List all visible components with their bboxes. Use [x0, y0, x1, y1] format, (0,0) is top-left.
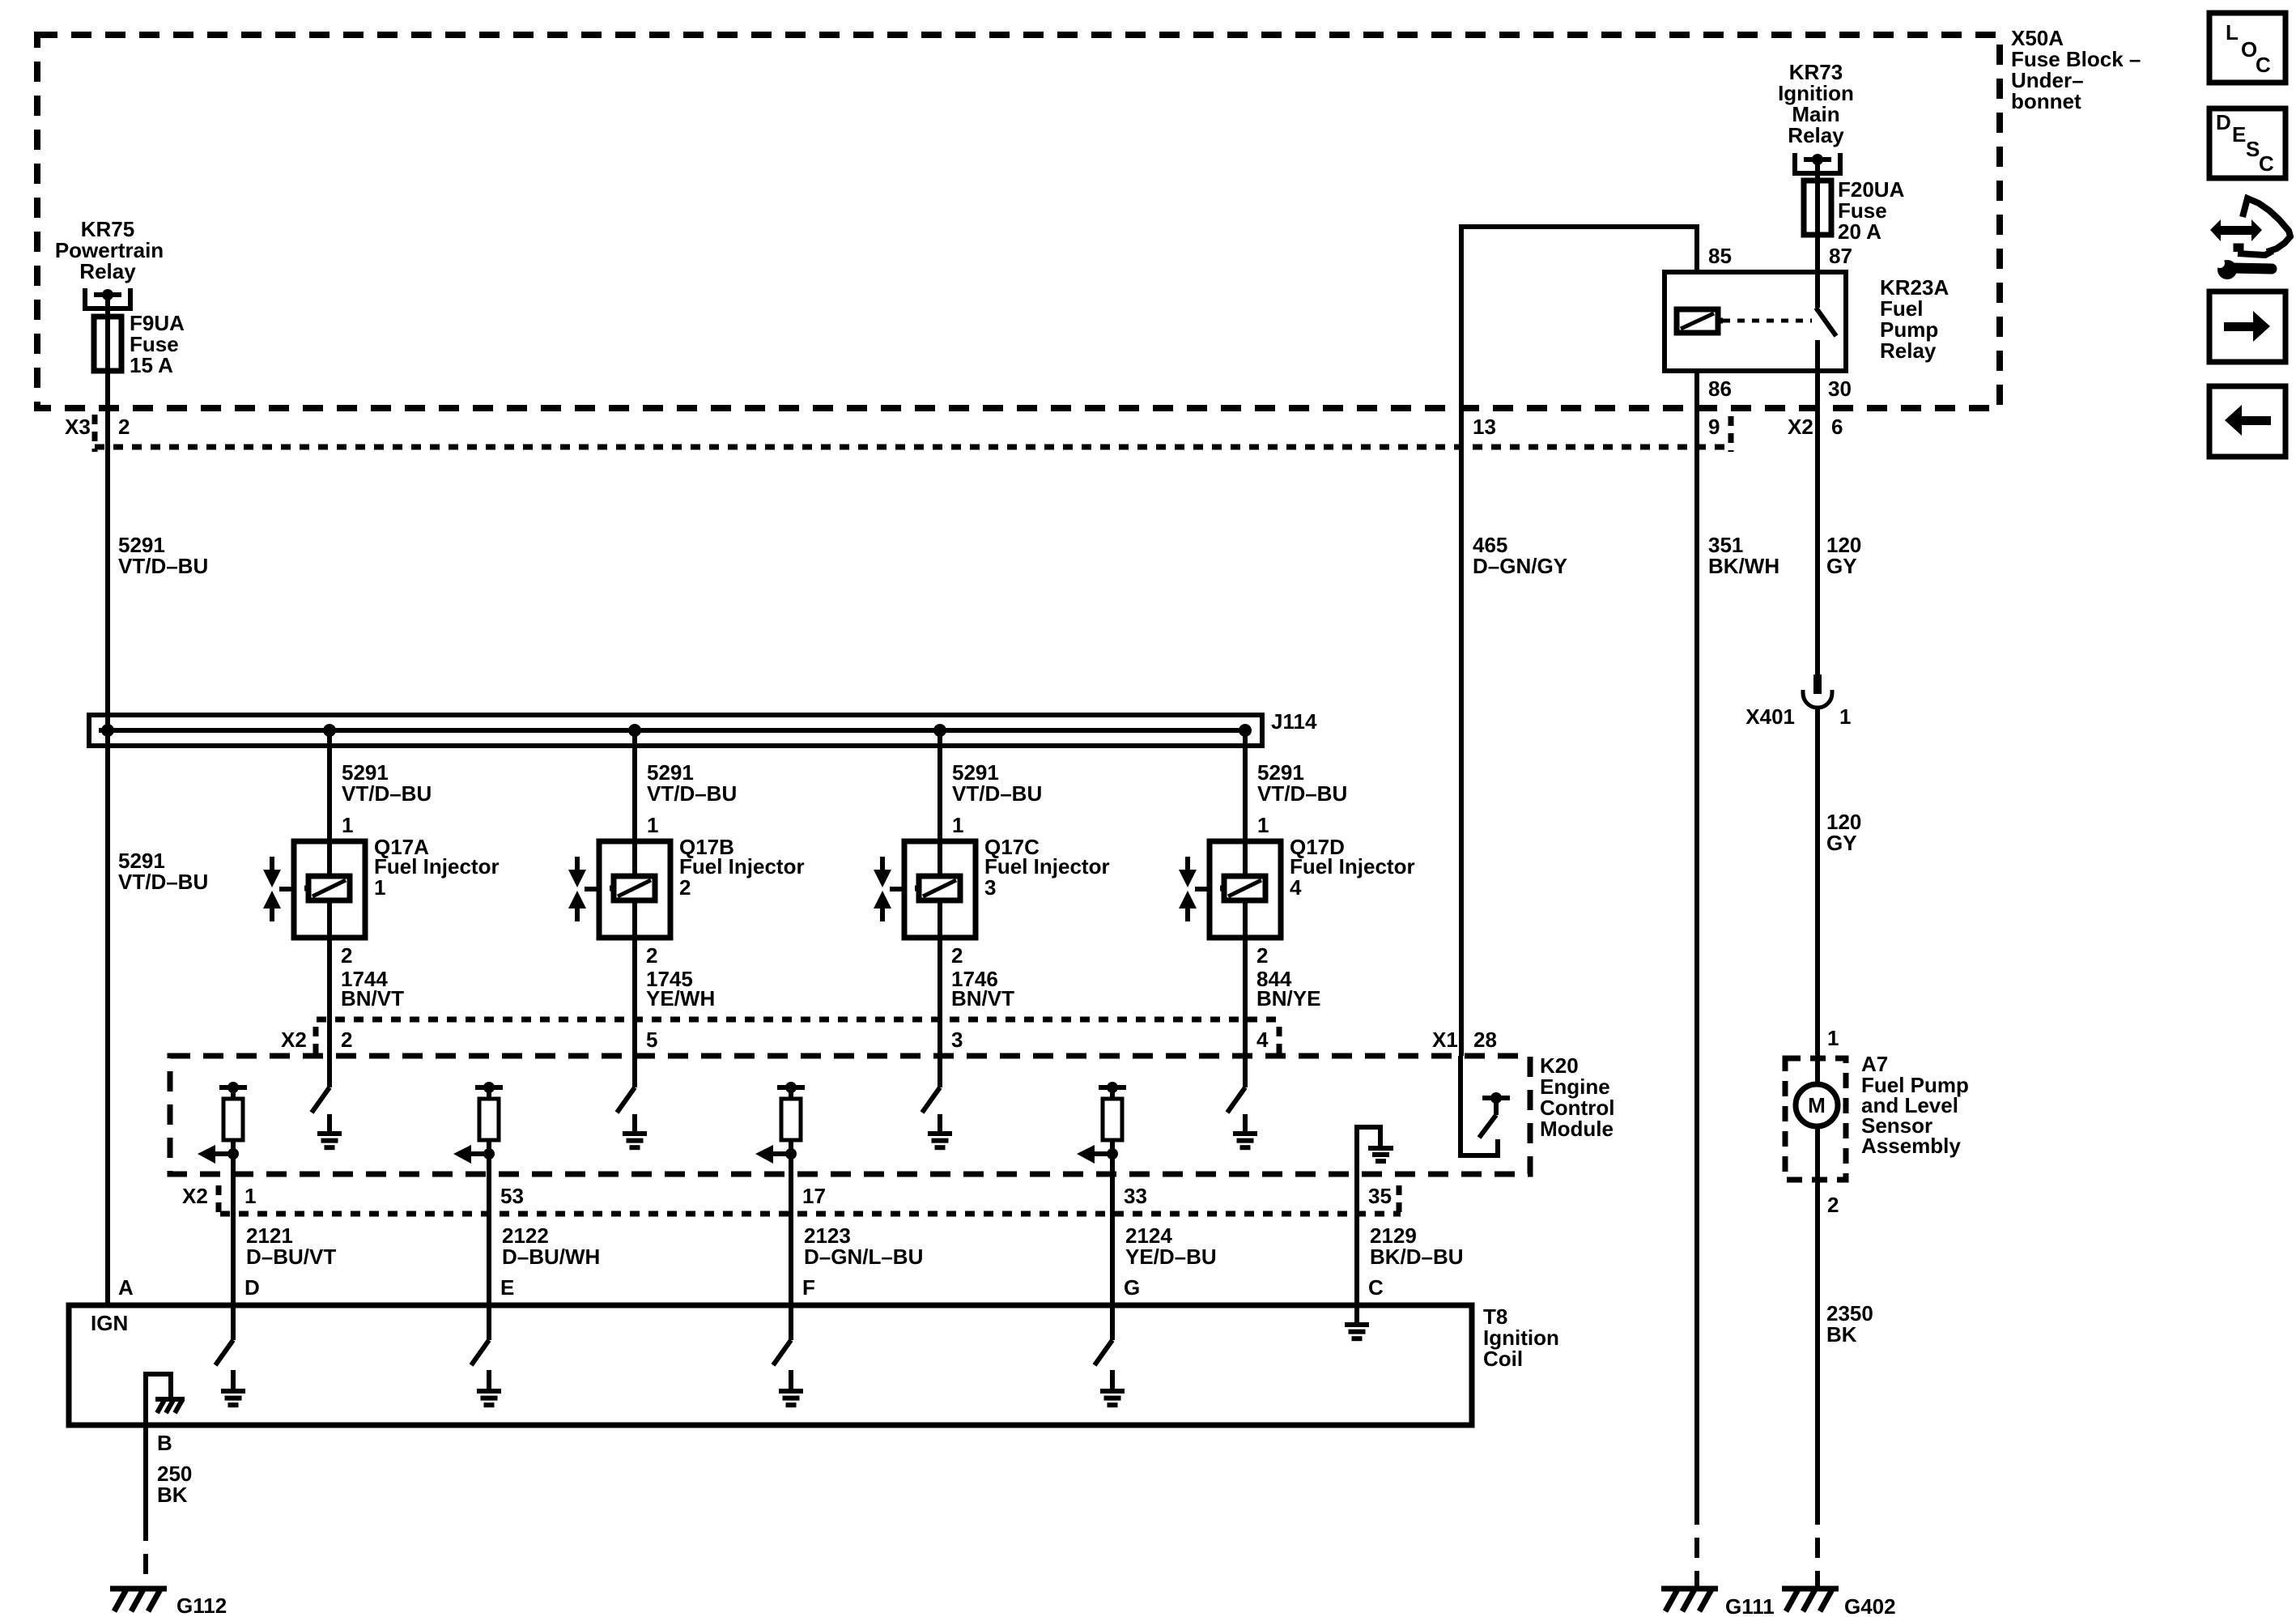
label T8 pin E — [500, 1275, 514, 1300]
svg-text:2: 2 — [646, 943, 657, 968]
icon DESC — [2209, 109, 2285, 178]
svg-text:X2: X2 — [182, 1184, 208, 1208]
icon LOC — [2209, 13, 2285, 83]
svg-text:Module: Module — [1540, 1117, 1614, 1141]
wire 2122 D&#8211;BU/WH from ECM pin 53 to T8 pin E — [487, 1177, 491, 1305]
svg-text:E: E — [500, 1275, 514, 1300]
svg-text:53: 53 — [500, 1184, 524, 1208]
svg-text:1: 1 — [244, 1184, 256, 1208]
label G112 — [176, 1594, 227, 1617]
svg-text:D: D — [2216, 110, 2231, 134]
label X2 pin 6 — [1788, 415, 1843, 439]
svg-text:J114: J114 — [1271, 709, 1317, 734]
label A7 pin 1 — [1827, 1026, 1839, 1050]
ECM low-side switch for Q17A — [312, 1087, 330, 1113]
svg-text:1: 1 — [1839, 704, 1851, 729]
T8 internal ground G — [1100, 1370, 1125, 1405]
label ECM pin 17 — [802, 1184, 826, 1208]
svg-text:2: 2 — [1827, 1193, 1839, 1217]
svg-text:Fuel Injector: Fuel Injector — [679, 854, 805, 879]
svg-text:X401: X401 — [1745, 704, 1795, 729]
label wire 5291 VT/D-BU (lower) — [118, 849, 208, 894]
ECM fuel pump relay driver at X1 pin 28 — [1461, 1056, 1510, 1155]
svg-text:1: 1 — [647, 813, 658, 837]
icon vehicle diagnostic (car with wrench) — [2210, 198, 2290, 279]
wire 5291 VT/D-BU from F9UA fuse to J114 and T8 pin A — [105, 295, 110, 1305]
svg-text:3: 3 — [951, 1028, 963, 1052]
svg-text:D–GN/L–BU: D–GN/L–BU — [804, 1245, 923, 1269]
label F9UA Fuse 15 A — [130, 311, 185, 377]
wire 2129 BK/D-BU from ECM pin 35 to T8 pin C — [1354, 1177, 1359, 1305]
svg-text:30: 30 — [1828, 377, 1852, 401]
svg-text:YE/WH: YE/WH — [646, 986, 715, 1011]
label ECM connector pin 5 — [646, 1028, 657, 1052]
label K20 Engine Control Module — [1540, 1053, 1614, 1141]
wire 5291 VT/D-BU from J114 to Q17B pin 1 — [632, 730, 637, 877]
wire from KR23A pin 85 to fuse block pin 13 — [1461, 227, 1697, 1056]
svg-text:G402: G402 — [1844, 1594, 1896, 1617]
fuel injector Q17A body — [294, 841, 365, 938]
svg-text:VT/D–BU: VT/D–BU — [1257, 781, 1347, 806]
label ECM pin 1 — [244, 1184, 256, 1208]
label G111 — [1725, 1594, 1775, 1617]
T8 primary switch D — [215, 1305, 233, 1365]
wire 1744 BN/VT from Q17A pin 2 to ECM — [327, 900, 332, 1087]
T8 internal ground E — [477, 1370, 501, 1405]
label wire 5291 VT/D-BU at Q17B — [647, 760, 737, 806]
label wire 2121 D&#8211;BU/VT — [246, 1223, 336, 1269]
fuel injector Q17B coil — [610, 876, 655, 900]
svg-text:9: 9 — [1708, 415, 1720, 439]
ECM driver output for ignition coil D — [198, 1082, 247, 1177]
ECM low-side switch for Q17D — [1227, 1087, 1245, 1113]
svg-text:BK: BK — [1826, 1322, 1857, 1347]
svg-text:17: 17 — [802, 1184, 826, 1208]
fuel injector Q17A coil — [304, 876, 350, 900]
label wire 5291 VT/D-BU at Q17C — [952, 760, 1042, 806]
label X1 pin 28 — [1432, 1028, 1497, 1052]
label wire 1745 YE/WH — [646, 967, 715, 1011]
svg-text:bonnet: bonnet — [2011, 89, 2081, 113]
svg-text:Assembly: Assembly — [1861, 1134, 1961, 1158]
connector X401 — [1803, 674, 1832, 708]
relay KR23A switch contact 87-30 — [1816, 272, 1836, 371]
svg-text:87: 87 — [1829, 244, 1852, 268]
label KR73 Ignition Main Relay — [1778, 60, 1854, 147]
label wire 250 BK — [157, 1462, 192, 1507]
ECM low-side switch for Q17B — [617, 1087, 635, 1113]
label IGN — [91, 1311, 128, 1335]
ground G111 — [1661, 1589, 1718, 1611]
svg-text:B: B — [157, 1431, 172, 1455]
wire 1746 BN/VT from Q17C pin 2 to ECM — [938, 900, 942, 1087]
label wire 2122 D&#8211;BU/WH — [502, 1223, 600, 1269]
connector separator right of pin 4 — [1277, 1027, 1282, 1054]
label T8 pin C — [1368, 1275, 1384, 1300]
relay KR23A Fuel Pump Relay box — [1665, 272, 1846, 371]
label X401 pin 1 — [1745, 704, 1851, 729]
svg-text:1: 1 — [1827, 1026, 1839, 1050]
svg-text:1: 1 — [1257, 813, 1269, 837]
T8 primary switch E — [471, 1305, 489, 1365]
fuel injector Q17D body — [1210, 841, 1281, 938]
label wire 2124 YE/D&#8211;BU — [1125, 1223, 1217, 1269]
label pin 9 — [1708, 415, 1720, 439]
T8 primary switch G — [1095, 1305, 1112, 1365]
ECM internal ground for Q17A — [317, 1114, 342, 1147]
svg-text:BN/YE: BN/YE — [1256, 986, 1320, 1011]
svg-text:G: G — [1124, 1275, 1140, 1300]
fuel injector Q17D valve symbol — [1179, 857, 1210, 921]
label wire 351 BK/WH — [1708, 533, 1779, 578]
ECM low-side switch for Q17C — [922, 1087, 940, 1113]
connector row X2 (injector harness) dotted line — [317, 1017, 1278, 1023]
svg-text:2: 2 — [341, 1028, 352, 1052]
svg-text:Fuel Injector: Fuel Injector — [1290, 854, 1415, 879]
wire KR73 through F20UA fuse to KR23A pin 87 — [1815, 160, 1820, 272]
svg-text:D–BU/WH: D–BU/WH — [502, 1245, 600, 1269]
label wire 1744 BN/VT — [341, 967, 404, 1011]
svg-text:C: C — [2256, 53, 2271, 77]
fuse F20UA 20 A — [1804, 181, 1831, 235]
wire 5291 VT/D-BU from J114 to Q17A pin 1 — [327, 730, 332, 877]
svg-text:Coil: Coil — [1483, 1347, 1523, 1371]
label ECM pin 33 — [1124, 1184, 1147, 1208]
svg-text:C: C — [1368, 1275, 1384, 1300]
svg-text:Fuel Injector: Fuel Injector — [984, 854, 1110, 879]
svg-text:G112: G112 — [176, 1594, 227, 1617]
label wire 2350 BK — [1826, 1301, 1873, 1347]
junction node on J114 at x=784 — [628, 724, 641, 737]
label pin 13 — [1473, 415, 1496, 439]
label J114 — [1271, 709, 1317, 734]
wire 2121 D&#8211;BU/VT from ECM pin 1 to T8 pin D — [231, 1177, 236, 1305]
junction node on J114 at x=133 — [101, 724, 114, 737]
wire 351 BK/WH from KR23A pin 86 to G111 — [1694, 371, 1699, 1589]
ECM driver output for ignition coil G — [1077, 1082, 1126, 1177]
T8 primary switch F — [773, 1305, 791, 1365]
svg-text:BK/D–BU: BK/D–BU — [1370, 1245, 1464, 1269]
svg-text:13: 13 — [1473, 415, 1496, 439]
svg-text:D–BU/VT: D–BU/VT — [246, 1245, 336, 1269]
label wire 5291 VT/D-BU at Q17D — [1257, 760, 1347, 806]
svg-text:2: 2 — [679, 875, 691, 900]
fuel injector Q17D coil — [1220, 876, 1265, 900]
relay KR23A coil — [1677, 309, 1723, 333]
svg-text:Relay: Relay — [1788, 123, 1844, 147]
svg-text:L: L — [2226, 20, 2239, 45]
label Q17C Fuel Injector 3 — [984, 835, 1110, 900]
svg-text:3: 3 — [984, 875, 996, 900]
svg-text:28: 28 — [1473, 1028, 1497, 1052]
svg-text:20 A: 20 A — [1838, 219, 1881, 244]
label X50A Fuse Block Under-bonnet — [2011, 26, 2141, 113]
svg-text:VT/D–BU: VT/D–BU — [952, 781, 1042, 806]
svg-text:1: 1 — [374, 875, 385, 900]
ground G402 — [1782, 1589, 1839, 1611]
motor M fuel pump — [1796, 1084, 1838, 1126]
label Q17D pin 1 — [1257, 813, 1269, 837]
T8 internal ground F — [779, 1370, 803, 1405]
svg-text:M: M — [1808, 1093, 1826, 1117]
svg-text:IGN: IGN — [91, 1311, 128, 1335]
wire 5291 VT/D-BU from J114 to Q17C pin 1 — [938, 730, 942, 877]
label A7 pin 2 — [1827, 1193, 1839, 1217]
ECM driver output for ignition coil E — [453, 1082, 503, 1177]
ground G112 — [110, 1589, 167, 1611]
fuel injector Q17C body — [904, 841, 976, 938]
svg-text:2: 2 — [118, 415, 130, 439]
svg-text:VT/D–BU: VT/D–BU — [118, 554, 208, 578]
svg-text:2: 2 — [951, 943, 963, 968]
ECM internal ground for Q17C — [928, 1114, 952, 1147]
svg-text:D–GN/GY: D–GN/GY — [1473, 554, 1567, 578]
fuel injector Q17C coil — [915, 876, 960, 900]
label X2 — [281, 1028, 307, 1052]
svg-text:BN/VT: BN/VT — [341, 986, 404, 1011]
label wire 5291 VT/D-BU (upper) — [118, 533, 208, 578]
fuse F9UA 15 A — [94, 317, 121, 371]
label Q17A Fuel Injector 1 — [374, 835, 500, 900]
relay KR23A coil-to-contact dashed link — [1723, 319, 1812, 323]
svg-text:6: 6 — [1831, 415, 1843, 439]
ECM internal ground for Q17D — [1233, 1114, 1257, 1147]
label X3 pin 2 — [65, 415, 130, 439]
relay KR75 Powertrain Relay pick-off symbol — [85, 288, 130, 317]
connector separator X3 — [92, 415, 98, 452]
label KR75 Powertrain Relay — [55, 217, 164, 283]
label T8 pin A — [118, 1275, 134, 1300]
label Q17D pin 2 — [1256, 943, 1268, 968]
svg-text:4: 4 — [1256, 1028, 1269, 1052]
svg-text:VT/D–BU: VT/D–BU — [118, 870, 208, 894]
wire 250 BK from T8 pin B to G112 — [143, 1425, 148, 1589]
fuse block X50A dashed boundary — [37, 35, 2000, 408]
label KR23A Fuel Pump Relay — [1880, 275, 1949, 363]
label ECM connector pin 3 — [951, 1028, 963, 1052]
svg-text:Relay: Relay — [1880, 338, 1937, 363]
fuel injector Q17B body — [599, 841, 670, 938]
label ECM pin 35 — [1368, 1184, 1392, 1208]
label pin 87 — [1829, 244, 1852, 268]
label wire 5291 VT/D-BU at Q17A — [342, 760, 432, 806]
svg-text:2: 2 — [1256, 943, 1268, 968]
svg-text:GY: GY — [1826, 554, 1857, 578]
svg-text:Fuel Injector: Fuel Injector — [374, 854, 500, 879]
label Q17B pin 2 — [646, 943, 657, 968]
T8 internal ground D — [221, 1370, 245, 1405]
label wire 1746 BN/VT — [951, 967, 1014, 1011]
svg-text:E: E — [2232, 122, 2246, 147]
svg-text:5: 5 — [646, 1028, 657, 1052]
label pin 85 — [1708, 244, 1732, 268]
svg-text:4: 4 — [1290, 875, 1302, 900]
label ECM connector pin 4 — [1256, 1028, 1269, 1052]
wire 1745 YE/WH from Q17B pin 2 to ECM — [632, 900, 637, 1087]
T8 internal chassis ground near pin B — [146, 1374, 185, 1425]
svg-text:33: 33 — [1124, 1184, 1147, 1208]
svg-text:A: A — [118, 1275, 134, 1300]
label pin 86 — [1708, 377, 1732, 401]
svg-text:YE/D–BU: YE/D–BU — [1125, 1245, 1217, 1269]
svg-text:G111: G111 — [1725, 1594, 1775, 1617]
label wire 844 BN/YE — [1256, 967, 1320, 1011]
splice pack J114 bus bar — [89, 715, 1262, 746]
svg-text:35: 35 — [1368, 1184, 1392, 1208]
wire 2124 YE/D&#8211;BU from ECM pin 33 to T8 pin G — [1110, 1177, 1115, 1305]
label G402 — [1844, 1594, 1896, 1617]
svg-text:BK/WH: BK/WH — [1708, 554, 1779, 578]
label Q17D Fuel Injector 4 — [1290, 835, 1415, 900]
label A7 Fuel Pump and Level Sensor Assembly — [1861, 1052, 1969, 1158]
label wire 120 GY (upper) — [1826, 533, 1861, 578]
svg-text:X2: X2 — [281, 1028, 307, 1052]
ECM internal ground to pin 35 — [1357, 1127, 1393, 1177]
label Q17A pin 2 — [341, 943, 352, 968]
wire 2123 D&#8211;GN/L&#8211;BU from ECM pin 17 to T8 pin F — [789, 1177, 793, 1305]
svg-text:15 A: 15 A — [130, 353, 173, 377]
connector row X2 (ECM lower) dotted line — [220, 1211, 1401, 1217]
svg-text:86: 86 — [1708, 377, 1732, 401]
label Q17B Fuel Injector 2 — [679, 835, 805, 900]
connector separator X2 right — [1728, 416, 1734, 452]
label wire 2129 BK/D-BU — [1370, 1223, 1464, 1269]
label pin 30 — [1828, 377, 1852, 401]
ECM driver output for ignition coil F — [755, 1082, 805, 1177]
fuel injector Q17A valve symbol — [263, 857, 294, 921]
junction node on J114 at x=1538 — [1239, 724, 1252, 737]
svg-text:2: 2 — [341, 943, 352, 968]
wire 120 GY from KR23A pin 30 to X401 — [1815, 371, 1820, 676]
engine control module K20 dashed box — [170, 1056, 1530, 1174]
connector separator X2 lower left — [216, 1185, 222, 1218]
fuel injector Q17B valve symbol — [568, 857, 599, 921]
svg-text:BK: BK — [157, 1483, 188, 1507]
svg-text:F: F — [802, 1275, 815, 1300]
label Q17C pin 1 — [952, 813, 963, 837]
svg-text:C: C — [2259, 151, 2274, 176]
svg-text:1: 1 — [342, 813, 353, 837]
svg-text:85: 85 — [1708, 244, 1732, 268]
label F20UA Fuse 20 A — [1838, 177, 1905, 244]
icon arrow left — [2209, 386, 2285, 457]
connector row X3/X2 dotted line — [95, 445, 1727, 450]
label T8 pin B — [157, 1431, 172, 1455]
label wire 2123 D&#8211;GN/L&#8211;BU — [804, 1223, 923, 1269]
label ECM pin 53 — [500, 1184, 524, 1208]
wire 5291 VT/D-BU from J114 to Q17D pin 1 — [1243, 730, 1248, 877]
label X2 lower — [182, 1184, 208, 1208]
svg-text:X3: X3 — [65, 415, 91, 439]
svg-text:VT/D–BU: VT/D–BU — [342, 781, 432, 806]
connector separator right of pin 35 — [1397, 1185, 1402, 1218]
icon arrow right — [2209, 291, 2285, 362]
ignition coil T8 box — [69, 1305, 1472, 1425]
label Q17B pin 1 — [647, 813, 658, 837]
svg-text:S: S — [2246, 137, 2260, 161]
wire 844 BN/YE from Q17D pin 2 to ECM — [1243, 900, 1248, 1087]
svg-text:VT/D–BU: VT/D–BU — [647, 781, 737, 806]
label wire 120 GY (lower) — [1826, 810, 1861, 855]
label wire 465 D-GN/GY — [1473, 533, 1567, 578]
junction node on J114 at x=1161 — [933, 724, 946, 737]
label Q17C pin 2 — [951, 943, 963, 968]
wire 120 GY from X401 to A7 pin 1 — [1815, 708, 1820, 1083]
svg-text:1: 1 — [952, 813, 963, 837]
label T8 pin F — [802, 1275, 815, 1300]
svg-text:BN/VT: BN/VT — [951, 986, 1014, 1011]
label Q17A pin 1 — [342, 813, 353, 837]
label T8 Ignition Coil — [1483, 1304, 1559, 1371]
junction node on J114 at x=407 — [323, 724, 336, 737]
connector separator X2 left — [313, 1027, 319, 1054]
fuel pump A7 dashed box — [1785, 1058, 1846, 1180]
svg-text:X2: X2 — [1788, 415, 1813, 439]
label ECM connector pin 2 — [341, 1028, 352, 1052]
svg-text:D: D — [244, 1275, 260, 1300]
svg-text:X1: X1 — [1432, 1028, 1458, 1052]
fuel injector Q17C valve symbol — [874, 857, 904, 921]
label T8 pin G — [1124, 1275, 1140, 1300]
relay KR73 Ignition Main Relay pick-off symbol — [1795, 153, 1840, 181]
label T8 pin D — [244, 1275, 260, 1300]
ECM internal ground for Q17B — [623, 1114, 647, 1147]
wire 2350 BK from A7 pin 2 to G402 — [1815, 1127, 1820, 1589]
svg-text:GY: GY — [1826, 831, 1857, 855]
svg-text:Relay: Relay — [79, 259, 136, 283]
T8 internal ground at pin C — [1345, 1305, 1369, 1338]
